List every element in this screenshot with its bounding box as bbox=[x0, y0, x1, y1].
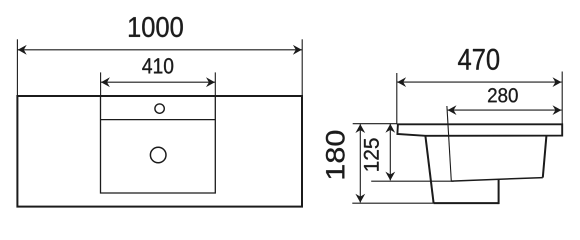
arrow top of 125 bbox=[385, 124, 395, 133]
label 180 (rotated) bbox=[326, 131, 345, 179]
right wall of bowl bbox=[543, 136, 547, 178]
extension line pedestal bottom (180 bottom) bbox=[352, 202, 433, 204]
arrow bottom of 125 bbox=[385, 172, 395, 181]
label 1000 bbox=[129, 17, 183, 37]
extension line right for 410 bbox=[214, 72, 216, 96]
label 280 bbox=[488, 88, 518, 102]
extension line right for 470/280 bbox=[561, 72, 563, 125]
pedestal right edge bbox=[498, 179, 500, 204]
dimension line 410 bbox=[101, 81, 215, 83]
extension line top (slab top level, left) bbox=[353, 123, 397, 125]
arrow top of 180 bbox=[355, 124, 365, 133]
small circle: faucet hole bbox=[155, 104, 164, 113]
extension line left for 470 bbox=[396, 73, 398, 124]
left wall of bowl/pedestal bbox=[425, 136, 433, 203]
big circle: drain hole bbox=[150, 147, 166, 163]
arrow right of 1000 bbox=[293, 45, 302, 55]
arrow left of 280 bbox=[448, 105, 457, 115]
extension line left for 1000 bbox=[16, 39, 18, 96]
label 410 bbox=[142, 58, 173, 74]
dimension line 125 bbox=[389, 124, 391, 180]
arrow right of 470 bbox=[553, 77, 562, 87]
label 125 (rotated) bbox=[364, 138, 379, 170]
extension line bowl inner bottom (125 bottom) bbox=[371, 180, 454, 182]
arrow left of 410 bbox=[101, 77, 110, 87]
slab: top counter outline bbox=[397, 124, 562, 136]
label 470 bbox=[458, 49, 499, 70]
divider line: deck edge inside bowl bbox=[101, 119, 216, 121]
outer rect: washbasin front outline bbox=[17, 96, 302, 207]
extension line left for 410 bbox=[100, 72, 102, 96]
arrow left of 470 bbox=[397, 77, 406, 87]
dimension line 470 bbox=[397, 81, 562, 83]
inner wall thin line (also 280 extension) bbox=[447, 106, 451, 181]
dimension line 1000 bbox=[18, 49, 302, 51]
dimension line 280 bbox=[448, 109, 562, 111]
arrow left of 1000 bbox=[18, 45, 27, 55]
basin rect: inner bowl outline bbox=[101, 96, 216, 193]
extension line right for 1000 bbox=[301, 39, 303, 96]
pedestal bottom bbox=[434, 202, 499, 204]
arrow right of 410 bbox=[206, 77, 215, 87]
dimension line 180 bbox=[359, 124, 361, 202]
bowl bottom line bbox=[451, 178, 543, 182]
arrow bottom of 180 bbox=[355, 194, 365, 203]
arrow right of 280 bbox=[553, 105, 562, 115]
